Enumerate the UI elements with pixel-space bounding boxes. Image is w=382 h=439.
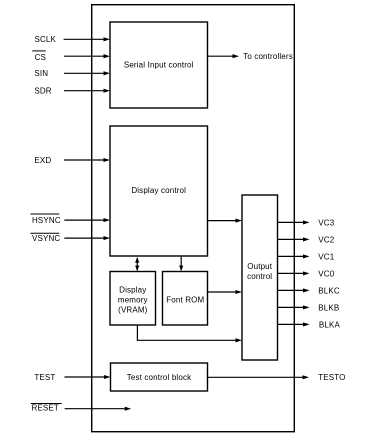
wire RESET input arrow (65, 407, 132, 411)
svg-text:SDR: SDR (34, 87, 51, 96)
svg-text:Test control block: Test control block (127, 373, 192, 382)
wire BLKB output arrow (278, 305, 310, 309)
block U5 Output control (242, 195, 278, 360)
wire SIN input arrow (64, 71, 110, 75)
wire CS input arrow (64, 54, 110, 58)
svg-text:Serial Input control: Serial Input control (124, 60, 194, 69)
wire VC3 output arrow (278, 220, 310, 224)
wire TESTO output arrow (208, 375, 310, 379)
svg-text:VSYNC: VSYNC (32, 234, 60, 243)
svg-text:TEST: TEST (34, 373, 55, 382)
wire BLKA output arrow (278, 322, 310, 326)
wire SDR input arrow (64, 89, 110, 93)
svg-text:HSYNC: HSYNC (32, 216, 61, 225)
block U2 Display control (110, 126, 208, 256)
svg-text:Font ROM: Font ROM (166, 295, 204, 304)
svg-text:BLKB: BLKB (318, 303, 339, 312)
wire Display control to VRAM bidirectional arrow (135, 257, 139, 272)
svg-text:Display: Display (119, 285, 146, 294)
svg-text:Output: Output (247, 262, 273, 271)
wire EXD input arrow (64, 158, 110, 162)
pin label VSYNC (active low) (30, 233, 60, 243)
block U3 Display memory (VRAM) (110, 272, 156, 326)
svg-text:VC2: VC2 (318, 235, 334, 244)
wire VC1 output arrow (278, 254, 310, 258)
svg-text:SIN: SIN (34, 69, 48, 78)
wire Display control to Output control arrow (208, 219, 243, 223)
pin label RESET (active low) (31, 403, 62, 412)
wire Display control to Font ROM arrow (179, 257, 183, 272)
svg-text:CS: CS (35, 53, 46, 62)
wire VRAM to Output control routed arrow (137, 325, 242, 342)
wire HSYNC input arrow (64, 218, 110, 222)
pin label HSYNC (active low) (30, 214, 60, 225)
svg-text:VC0: VC0 (318, 269, 334, 278)
svg-text:TESTO: TESTO (318, 373, 345, 382)
wire TEST input arrow (65, 375, 111, 379)
svg-text:EXD: EXD (34, 156, 51, 165)
wire VC2 output arrow (278, 237, 310, 241)
svg-text:control: control (247, 272, 272, 281)
svg-text:VC1: VC1 (318, 252, 334, 261)
svg-text:Display control: Display control (131, 186, 186, 195)
block U1 Serial Input control (110, 22, 208, 108)
svg-text:RESET: RESET (32, 403, 59, 412)
svg-text:To controllers: To controllers (243, 52, 293, 61)
wire Font ROM to Output control arrow (208, 290, 243, 294)
wire SCLK input arrow (64, 37, 110, 41)
block U4 Font ROM (163, 272, 208, 326)
svg-text:SCLK: SCLK (35, 35, 57, 44)
svg-text:memory: memory (118, 295, 148, 304)
svg-text:BLKA: BLKA (319, 320, 341, 329)
wire VSYNC input arrow (64, 236, 110, 240)
svg-text:VC3: VC3 (318, 218, 334, 227)
block U6 Test control block (111, 363, 208, 391)
pin label CS (active low) (32, 51, 46, 62)
wire To controllers output arrow (208, 54, 240, 58)
svg-text:BLKC: BLKC (318, 286, 340, 295)
wire BLKC output arrow (278, 288, 310, 292)
wire VC0 output arrow (278, 271, 310, 275)
svg-text:(VRAM): (VRAM) (118, 306, 148, 315)
outer chip boundary box (92, 5, 295, 432)
